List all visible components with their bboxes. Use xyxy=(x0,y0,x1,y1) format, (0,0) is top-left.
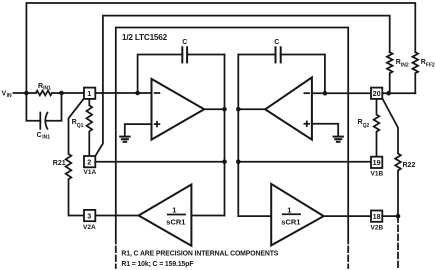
wire V2A pin3 to integrator A xyxy=(95,215,138,217)
wire top feed to RFF2 xyxy=(26,3,415,93)
resistor R21 with diagonal from pin1 xyxy=(53,98,84,215)
node VIN label xyxy=(2,90,12,99)
svg-text:sCR1: sCR1 xyxy=(281,217,300,226)
ground (section B) xyxy=(333,137,344,142)
node junction RIN1 right xyxy=(59,91,64,96)
svg-text:1: 1 xyxy=(287,205,291,214)
resistor RQ1 xyxy=(72,99,93,156)
wire op-amp A output xyxy=(204,108,224,110)
wire second top feed V1A to RIN2 xyxy=(95,16,389,157)
wire integrator B input xyxy=(238,215,271,217)
resistor RIN2 xyxy=(387,52,409,93)
wire VIN input xyxy=(14,92,36,94)
node junction cap A feedback xyxy=(135,91,140,96)
wire V1B row junction to pin19 xyxy=(238,161,371,163)
svg-text:C: C xyxy=(274,39,279,46)
svg-text:R1, C ARE PRECISION INTERNAL C: R1, C ARE PRECISION INTERNAL COMPONENTS xyxy=(121,251,278,258)
integrator block 1/sCR1 (section A) xyxy=(139,185,192,246)
resistor RQ2 xyxy=(358,99,380,157)
node junction cap B feedback xyxy=(323,91,328,96)
pin 20 xyxy=(371,88,382,99)
node junction V1A row xyxy=(222,159,227,164)
wire op-amp A noninverting to ground xyxy=(125,124,152,136)
svg-text:1: 1 xyxy=(87,89,91,98)
wire V1A row pin2 to junction xyxy=(95,161,224,163)
wire vertical net V1B internal xyxy=(237,55,239,217)
wire op-amp B noninverting to ground xyxy=(312,124,338,136)
wire vertical net V1A internal xyxy=(224,55,226,216)
svg-text:C: C xyxy=(182,39,187,46)
pin 3 xyxy=(84,210,95,221)
svg-text:sCR1: sCR1 xyxy=(166,217,185,226)
svg-text:19: 19 xyxy=(373,158,381,167)
wire integrator A input xyxy=(191,215,224,217)
wire pin20 to RFF2 bottom xyxy=(382,92,415,94)
svg-text:R22: R22 xyxy=(403,162,416,169)
wire V2B dashed continuation xyxy=(397,216,399,268)
svg-text:IN1: IN1 xyxy=(42,134,50,140)
svg-text:20: 20 xyxy=(373,89,381,98)
svg-text:18: 18 xyxy=(373,212,381,221)
ground (section A) xyxy=(119,137,130,142)
wire feedback cap B branch xyxy=(238,55,325,94)
svg-text:R1 = 10k; C = 159.15pF: R1 = 10k; C = 159.15pF xyxy=(121,261,193,268)
svg-text:FF2: FF2 xyxy=(426,63,435,69)
op-amp B xyxy=(265,77,312,139)
node junction INV B xyxy=(386,91,391,96)
chip boundary 1/2 LTC1562 xyxy=(116,28,348,269)
svg-text:IN2: IN2 xyxy=(401,63,409,69)
svg-text:V1B: V1B xyxy=(371,171,384,178)
pin 19 xyxy=(371,157,382,168)
svg-text:IN: IN xyxy=(7,93,12,99)
pin 2 xyxy=(84,156,95,167)
node junction op-amp B output xyxy=(236,107,241,112)
pin 1 xyxy=(84,88,95,99)
node junction op-amp A output xyxy=(222,107,227,112)
svg-text:C: C xyxy=(37,132,42,139)
svg-text:V2B: V2B xyxy=(371,225,384,232)
svg-text:1: 1 xyxy=(172,205,176,214)
wire op-amp B inverting to pin20 xyxy=(312,92,371,94)
capacitor C (section B) xyxy=(274,39,281,64)
wire RIN1 to pin1 xyxy=(52,92,84,94)
svg-text:1/2 LTC1562: 1/2 LTC1562 xyxy=(122,33,168,42)
wire pin18 to node xyxy=(382,215,398,217)
op-amp A xyxy=(152,79,205,140)
svg-text:3: 3 xyxy=(87,211,91,220)
svg-text:V1A: V1A xyxy=(84,169,97,176)
svg-text:Q1: Q1 xyxy=(77,123,84,129)
integrator block 1/sCR1 (section B) xyxy=(271,184,324,246)
resistor R22 with diagonal from pin20 xyxy=(382,98,415,216)
wire pin1 to op-amp inverting input xyxy=(95,92,151,94)
resistor RIN1 xyxy=(36,83,52,95)
svg-text:V2A: V2A xyxy=(83,224,96,231)
svg-text:IN1: IN1 xyxy=(43,86,51,92)
svg-text:Q2: Q2 xyxy=(363,123,370,129)
wire op-amp B output xyxy=(238,108,265,110)
svg-text:2: 2 xyxy=(87,157,91,166)
node junction V1B row xyxy=(236,159,241,164)
pin 18 xyxy=(371,211,382,222)
svg-text:R21: R21 xyxy=(53,160,66,167)
capacitor CIN1 xyxy=(26,93,61,140)
wire feedback cap A branch xyxy=(138,55,225,94)
node junction V2B xyxy=(396,214,401,219)
wire integrator B output to pin18 xyxy=(324,215,371,217)
capacitor C (section A) xyxy=(182,39,187,64)
resistor RFF2 xyxy=(412,52,434,93)
node junction VIN xyxy=(24,91,29,96)
